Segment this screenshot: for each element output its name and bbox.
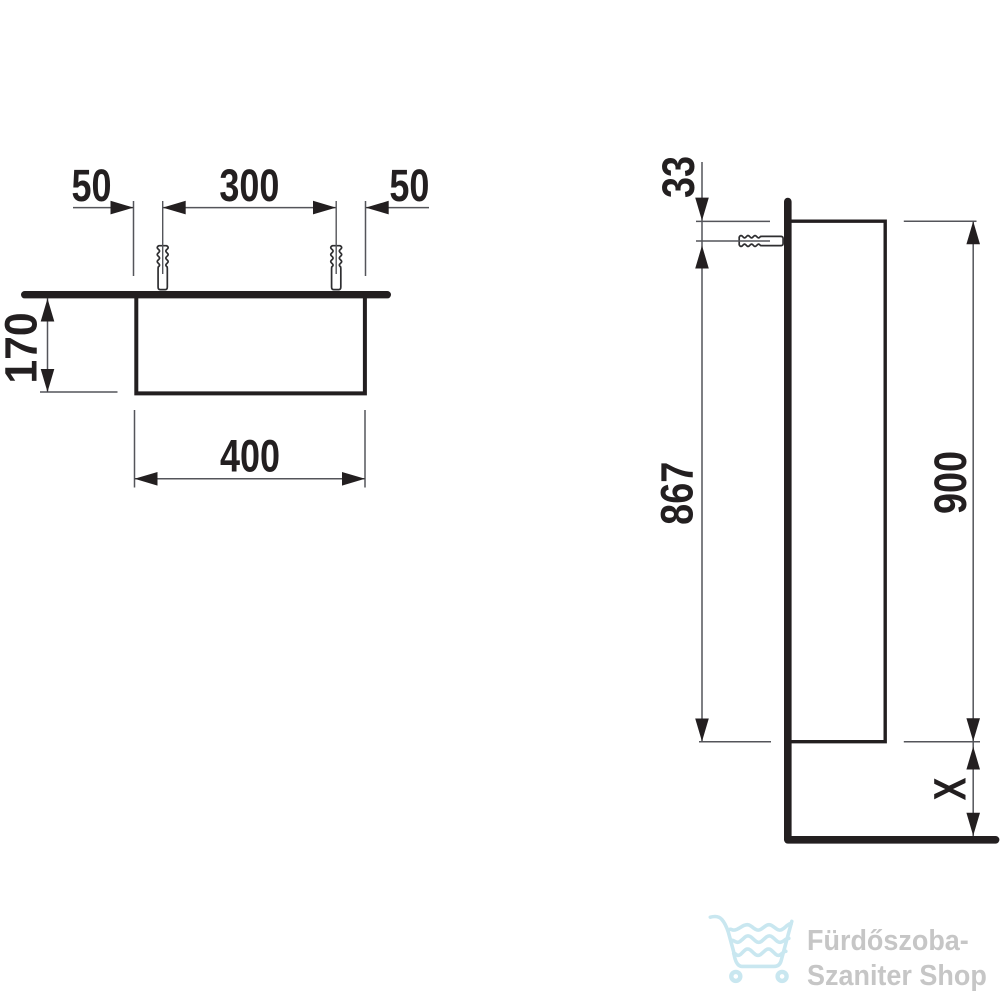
svg-text:400: 400 bbox=[220, 431, 280, 482]
svg-text:900: 900 bbox=[925, 451, 976, 514]
svg-text:867: 867 bbox=[651, 462, 702, 525]
svg-text:Fürdőszoba-: Fürdőszoba- bbox=[807, 924, 969, 956]
svg-text:X: X bbox=[926, 777, 976, 800]
svg-text:33: 33 bbox=[653, 156, 704, 198]
svg-text:170: 170 bbox=[0, 312, 47, 383]
svg-text:Szaniter Shop: Szaniter Shop bbox=[807, 959, 987, 991]
svg-text:50: 50 bbox=[71, 160, 111, 211]
svg-text:50: 50 bbox=[389, 160, 429, 211]
svg-text:300: 300 bbox=[219, 160, 279, 211]
